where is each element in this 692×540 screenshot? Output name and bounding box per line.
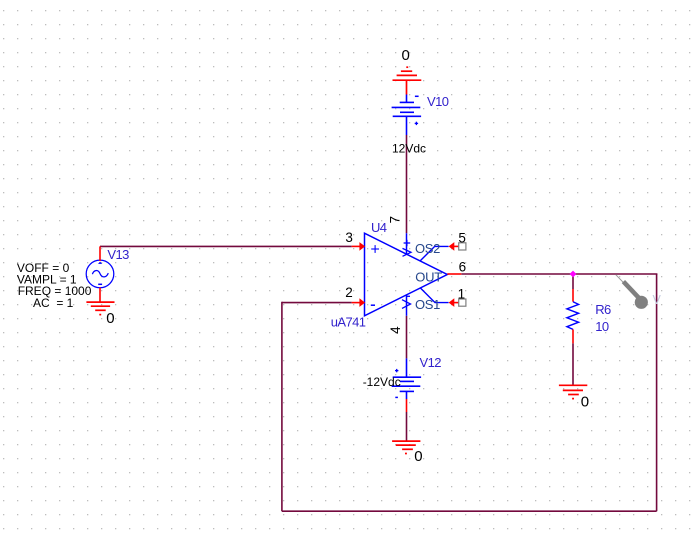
svg-text:0: 0 bbox=[414, 448, 422, 465]
svg-text:0: 0 bbox=[402, 47, 410, 64]
wire R6 to ground bbox=[572, 343, 574, 385]
V12 plus mark bbox=[395, 369, 398, 372]
svg-text:6: 6 bbox=[459, 259, 467, 274]
svg-text:1: 1 bbox=[458, 287, 466, 302]
V13 red pin bottom bbox=[99, 288, 101, 303]
V13 bottom minus mark bbox=[98, 283, 102, 285]
wire V10 to pin7 bbox=[406, 135, 408, 233]
ground 0 below V13 bbox=[86, 302, 114, 315]
svg-text:V13: V13 bbox=[107, 247, 129, 262]
wire V13 to pin3 bbox=[100, 245, 352, 247]
pin 7 blue lead bbox=[406, 233, 408, 254]
pin 5 unconnected square bbox=[459, 243, 466, 250]
wire pin4 to V12 bbox=[406, 316, 408, 359]
junction node OUT bbox=[570, 271, 577, 278]
V+ mark bbox=[403, 240, 412, 256]
V- mark bbox=[402, 296, 411, 308]
V13 top caret mark bbox=[98, 262, 102, 264]
svg-text:4: 4 bbox=[388, 326, 403, 334]
ground 0 below R6 bbox=[559, 385, 587, 398]
V10 plus mark bbox=[415, 122, 418, 125]
battery V12 bbox=[392, 358, 422, 399]
V12 minus mark bbox=[395, 396, 398, 398]
svg-text:10: 10 bbox=[595, 319, 609, 334]
ground 0 above V10 (flipped) bbox=[393, 67, 422, 94]
V13 sine wave bbox=[92, 271, 108, 277]
pin 4 blue lead bbox=[406, 295, 408, 316]
svg-text:V10: V10 bbox=[427, 94, 449, 109]
wire feedback left vertical bbox=[281, 302, 283, 511]
battery V10 bbox=[392, 95, 422, 136]
svg-text:uA741: uA741 bbox=[331, 315, 366, 330]
resistor R6 bbox=[572, 289, 574, 302]
OS2 blue lead bbox=[420, 246, 449, 261]
svg-text:V12: V12 bbox=[420, 355, 442, 370]
svg-text:R6: R6 bbox=[595, 302, 611, 317]
source V13 circle bbox=[86, 260, 114, 288]
svg-text:12Vdc: 12Vdc bbox=[392, 141, 426, 155]
wire pin2 horizontal bbox=[282, 302, 352, 304]
svg-text:2: 2 bbox=[345, 285, 353, 300]
svg-text:V: V bbox=[653, 293, 662, 307]
svg-text:OS1: OS1 bbox=[415, 297, 440, 312]
pin 2 red lead and arrow bbox=[352, 302, 360, 304]
op-amp minus input mark bbox=[371, 304, 375, 306]
ground 0 below V12 bbox=[392, 441, 420, 453]
op-amp plus input mark bbox=[371, 245, 379, 253]
wire feedback bottom horizontal bbox=[282, 510, 657, 512]
wire feedback right vertical bbox=[656, 274, 658, 511]
V12 red pin bottom bbox=[406, 399, 408, 412]
svg-text:5: 5 bbox=[458, 230, 466, 245]
svg-text:U4: U4 bbox=[371, 220, 387, 235]
svg-text:AC = 1: AC = 1 bbox=[33, 296, 74, 310]
pin 5 red arrow and lead bbox=[449, 242, 455, 251]
pin 6 OUT red lead bbox=[447, 273, 461, 275]
wire V12 to ground bbox=[406, 412, 408, 441]
V10 minus mark bbox=[415, 95, 419, 97]
svg-text:0: 0 bbox=[106, 310, 114, 327]
OS1 blue lead bbox=[420, 288, 448, 303]
wire OUT horizontal bbox=[461, 273, 657, 275]
pin 1 red arrow and lead bbox=[449, 298, 455, 307]
op-amp U1 uA741 triangle body bbox=[365, 233, 448, 316]
svg-text:0: 0 bbox=[581, 393, 589, 410]
pin 3 red lead and arrow bbox=[352, 245, 360, 247]
V13 red pin top bbox=[99, 246, 101, 261]
svg-text:OS2: OS2 bbox=[415, 241, 440, 256]
wire junction to R6 bbox=[572, 274, 574, 289]
svg-text:-12Vdc: -12Vdc bbox=[363, 375, 401, 389]
pin 1 unconnected square bbox=[459, 299, 466, 306]
svg-text:OUT: OUT bbox=[415, 270, 442, 285]
svg-text:3: 3 bbox=[345, 230, 353, 245]
voltage probe marker bbox=[616, 275, 624, 284]
svg-text:7: 7 bbox=[388, 216, 403, 224]
